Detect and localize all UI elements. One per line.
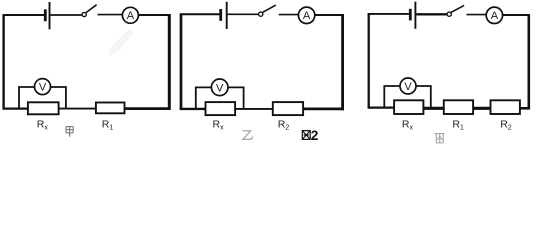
- wire: R1 to bottom-right corner: [125, 107, 171, 110]
- svg-text:V: V: [404, 81, 412, 93]
- wire: R2 to bottom-right corner: [520, 107, 530, 110]
- wire: voltmeter branch right stub: [416, 86, 431, 108]
- wire: right vertical: [341, 14, 344, 110]
- caption 图2: [302, 128, 318, 143]
- voltmeter V1: [35, 79, 51, 95]
- wire: left vertical: [180, 13, 183, 110]
- wire: bottom-left to Rx: [3, 107, 29, 109]
- wire: Rx to R1 (丙): [423, 107, 444, 110]
- wire: voltmeter branch right stub: [228, 87, 244, 109]
- wire: right vertical: [168, 14, 171, 110]
- label 丙: [434, 134, 444, 143]
- resistor R1: [96, 103, 125, 114]
- wire: left vertical: [2, 14, 4, 109]
- wire: battery to switch: [50, 14, 81, 16]
- svg-text:V: V: [216, 82, 224, 94]
- battery BT3: [410, 2, 415, 29]
- wire: left vertical: [368, 13, 370, 108]
- battery BT1: [45, 2, 49, 29]
- wire: ammeter to top-right corner: [315, 14, 344, 16]
- label 甲: [66, 127, 73, 137]
- wire: right vertical: [527, 14, 530, 109]
- wire: Rx to R1: [59, 108, 97, 110]
- svg-text:A: A: [303, 10, 311, 22]
- wire: top-left from battery to left corner: [4, 14, 45, 16]
- wire: Rx to R2: [235, 108, 273, 110]
- ammeter A1: [122, 7, 138, 23]
- resistor Rx (乙): [206, 102, 236, 115]
- wire: top-left from battery to left corner: [181, 13, 220, 15]
- wire: battery to switch: [416, 13, 446, 15]
- voltmeter V3: [400, 78, 416, 94]
- wire: ammeter to top-right corner: [138, 14, 170, 16]
- switch S2: [259, 5, 276, 16]
- wire: switch to ammeter: [98, 14, 123, 16]
- resistor R2 (丙): [491, 100, 520, 114]
- wire: R2 to bottom-right corner: [303, 108, 344, 111]
- wire: R1 to R2 (丙): [473, 107, 491, 110]
- switch S1: [82, 5, 97, 17]
- wire: switch to ammeter: [467, 14, 487, 16]
- resistor Rx: [28, 102, 59, 114]
- wire: voltmeter branch left stub: [19, 87, 35, 109]
- switch S3: [447, 5, 464, 16]
- wire: ammeter to top-right corner: [503, 14, 530, 16]
- resistor R1 (丙): [444, 100, 473, 114]
- battery BT2: [221, 2, 227, 29]
- smudge artifact: [108, 28, 133, 56]
- wire: bottom-left to Rx: [368, 106, 395, 108]
- wire: battery to switch: [228, 13, 259, 15]
- svg-text:A: A: [127, 10, 135, 22]
- wire: switch to ammeter: [279, 14, 299, 16]
- label 乙: [242, 131, 252, 140]
- wire: voltmeter branch right stub: [50, 87, 66, 109]
- svg-text:2: 2: [311, 128, 319, 143]
- svg-text:A: A: [491, 10, 499, 22]
- wire: top-left from battery to left corner: [369, 13, 409, 15]
- ammeter A3: [486, 7, 502, 23]
- wire: voltmeter branch left stub: [384, 86, 400, 108]
- wire: voltmeter branch left stub: [196, 87, 212, 109]
- wire: bottom-left to Rx: [180, 108, 206, 110]
- ammeter A2: [298, 7, 314, 23]
- resistor R2 (乙): [273, 102, 303, 115]
- resistor Rx (丙): [394, 100, 423, 114]
- svg-text:V: V: [39, 82, 47, 94]
- voltmeter V2: [211, 79, 228, 96]
